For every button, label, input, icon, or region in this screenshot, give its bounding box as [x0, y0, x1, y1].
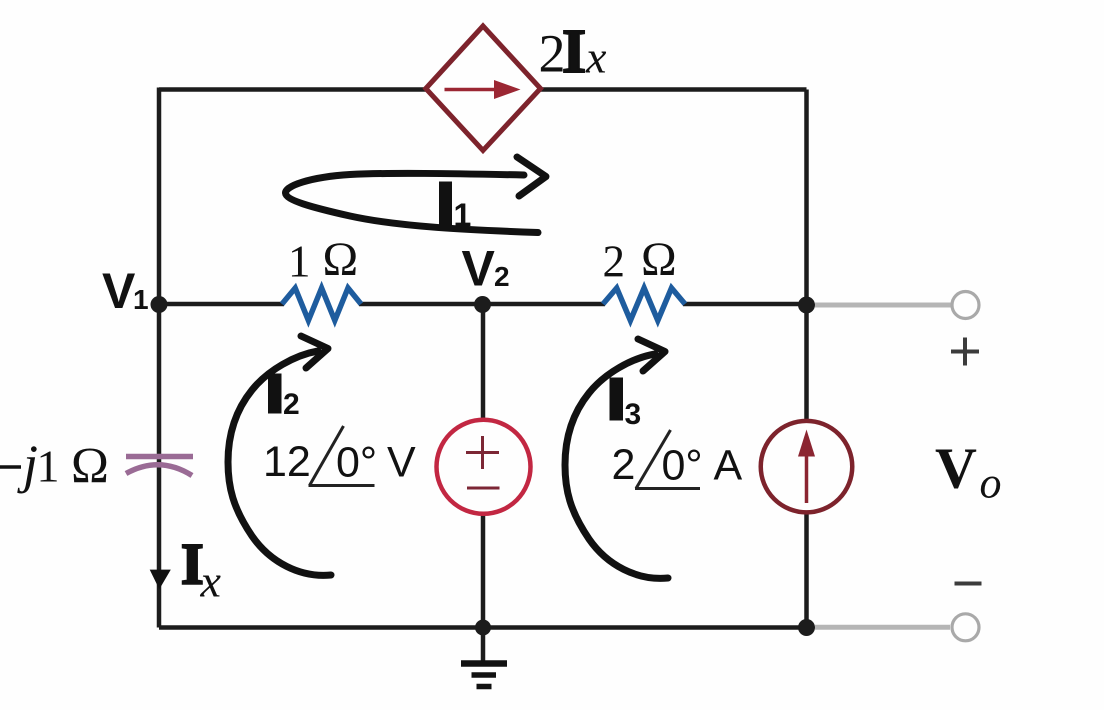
resistor R2 2-ohm zigzag [603, 288, 685, 321]
wire middle vertical V2 to ground through voltage source [481, 304, 486, 628]
svg-text:A: A [714, 441, 743, 489]
wire bottom from bottom-left corner to bottom-right node [159, 625, 807, 630]
svg-text:1: 1 [133, 284, 149, 315]
node V1 junction dot [151, 296, 168, 313]
svg-text:j: j [17, 434, 38, 494]
wire gray output bottom lead [815, 625, 950, 630]
svg-text:V: V [387, 438, 416, 486]
output minus polarity mark [955, 582, 982, 586]
dependent current source diamond 2Ix [426, 26, 541, 151]
svg-text:2: 2 [603, 237, 626, 287]
current source arrow up [805, 453, 809, 503]
svg-text:V: V [462, 241, 496, 297]
svg-text:V: V [102, 263, 136, 319]
node ground junction dot [475, 620, 491, 636]
voltage source plus sign [466, 451, 499, 454]
svg-text:1: 1 [37, 441, 60, 492]
voltage source 12V circle [437, 420, 531, 514]
wire top from node V1 corner to top-right corner [159, 87, 807, 92]
loop arrow I2 [228, 351, 331, 575]
svg-text:1: 1 [288, 237, 311, 287]
svg-text:0°: 0° [336, 438, 377, 486]
resistor R1 1-ohm zigzag [282, 288, 361, 321]
svg-text:x: x [585, 32, 607, 83]
svg-text:12: 12 [263, 438, 311, 486]
svg-text:2: 2 [612, 441, 636, 489]
svg-text:3: 3 [625, 398, 642, 431]
node right-middle junction dot [798, 297, 815, 314]
svg-text:o: o [980, 459, 1002, 508]
current source 2A circle [761, 421, 853, 512]
svg-text:V: V [935, 436, 977, 501]
loop arrow I1 [285, 173, 538, 232]
svg-text:1: 1 [454, 197, 472, 233]
wire middle horizontal R1 to R2 through node V2 [359, 302, 605, 307]
svg-text:0°: 0° [662, 442, 703, 490]
loop arrow I3 [565, 354, 668, 578]
wire middle horizontal R2 to right branch [683, 302, 807, 307]
label -j1 ohm [0, 465, 21, 469]
wire gray output top lead [815, 303, 951, 308]
label Ix with arrow [150, 570, 171, 590]
svg-text:Ω: Ω [323, 233, 359, 286]
capacitor -j1 ohm top plate [126, 454, 193, 460]
svg-text:Ω: Ω [641, 233, 677, 286]
wire left vertical branch (through capacitor) [157, 88, 162, 628]
svg-text:Ω: Ω [71, 439, 109, 495]
label I3 [610, 378, 624, 421]
wire middle horizontal V1 to R1 [159, 302, 284, 307]
voltage source minus sign [467, 487, 500, 490]
svg-text:2: 2 [494, 261, 510, 292]
label I2 [268, 374, 282, 414]
label I1 [439, 182, 452, 226]
ground symbol [481, 628, 486, 662]
capacitor -j1 ohm curved bottom plate [126, 465, 192, 476]
wire right vertical branch (through current source) [804, 90, 809, 628]
output plus polarity mark [951, 350, 979, 354]
terminal bottom open circle [952, 614, 979, 641]
svg-text:I: I [562, 18, 586, 86]
node bottom-right junction dot [798, 619, 815, 636]
node V2 junction dot [474, 296, 491, 313]
svg-text:x: x [200, 556, 222, 607]
terminal top open circle [952, 292, 979, 319]
dependent source arrow right [445, 88, 498, 92]
svg-text:2: 2 [283, 388, 300, 421]
